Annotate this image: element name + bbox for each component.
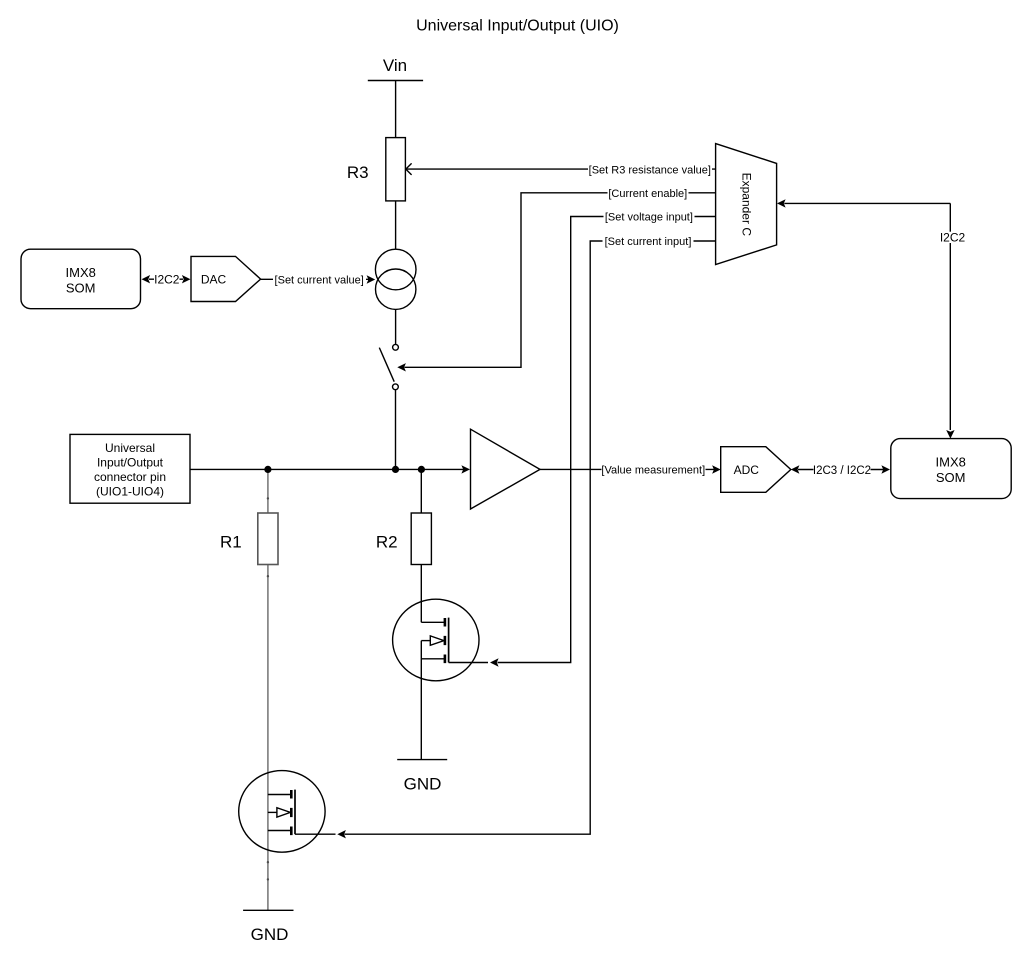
svg-text:SOM: SOM	[936, 470, 966, 485]
power rail Vin	[368, 80, 423, 82]
transistor Q1 drain lead	[268, 794, 291, 796]
svg-text:R1: R1	[220, 533, 242, 552]
svg-text:[Set current value]: [Set current value]	[275, 274, 364, 286]
net [Current enable] Expander to switch	[405, 193, 716, 367]
svg-text:[Set voltage input]: [Set voltage input]	[605, 212, 693, 224]
resistor R3 (adjustable)	[386, 138, 406, 201]
svg-text:[Set current input]: [Set current input]	[605, 236, 692, 248]
net [Set R3 resistance value] Expander to R3 wiper	[406, 168, 715, 170]
net [Set current value] DAC to current source	[261, 278, 369, 280]
transistor Q2 gate lead	[449, 662, 488, 664]
svg-text:IMX8: IMX8	[936, 455, 966, 470]
net [Value measurement] buffer to ADC	[540, 468, 714, 470]
svg-text:R2: R2	[376, 533, 398, 552]
junction node B (switch branch)	[392, 466, 399, 473]
transistor Q1 body connection with arrow	[268, 811, 277, 813]
wire switch to main node	[395, 390, 397, 470]
svg-text:(UIO1-UIO4): (UIO1-UIO4)	[96, 484, 164, 498]
wire node A to R1 to Q1 to GND (gray branch)	[267, 469, 269, 910]
ground GND (lower)	[243, 909, 293, 911]
transistor Q2 drain lead	[421, 621, 444, 623]
transistor Q1 channel contact bars	[290, 790, 293, 835]
wire node C to R2	[420, 469, 422, 513]
wire current source to switch S1	[395, 309, 397, 344]
current source CS1	[375, 249, 416, 290]
block U3 IMX8 SOM (right)	[891, 439, 1011, 499]
bus I2C3 / I2C2 between ADC and IMX8 SOM (double arrow)	[798, 469, 884, 471]
bus I2C2 between Expander C and IMX8 SOM (right)	[784, 203, 950, 430]
DAC converter block	[191, 256, 261, 301]
transistor Q1 gate lead	[295, 833, 336, 835]
svg-text:[Current enable]: [Current enable]	[608, 188, 687, 200]
svg-text:ADC: ADC	[734, 463, 760, 477]
buffer amplifier A1	[471, 429, 541, 509]
transistor Q2 channel contact bars	[444, 618, 447, 663]
svg-text:[Set R3 resistance value]: [Set R3 resistance value]	[589, 164, 711, 176]
wire R3 to current source	[395, 201, 397, 249]
transistor Q2 gate bar	[448, 618, 450, 663]
bus I2C2 between IMX8 SOM and DAC (double arrow)	[149, 278, 183, 280]
transistor Q1 bottom contact lead	[268, 830, 291, 832]
svg-text:I2C3 / I2C2: I2C3 / I2C2	[813, 465, 871, 477]
svg-text:connector pin: connector pin	[94, 470, 166, 484]
wire Vin to R3	[395, 81, 397, 138]
svg-text:Vin: Vin	[383, 56, 407, 75]
transistor Q1 (lower MOSFET, body circle)	[239, 771, 325, 853]
svg-text:Expander C: Expander C	[739, 173, 753, 237]
switch S1	[393, 344, 399, 350]
svg-text:GND: GND	[404, 775, 442, 794]
ADC converter block	[721, 447, 791, 493]
wire main node: connector pin to buffer input	[190, 468, 464, 470]
net [Set current input] Expander to Q1 gate	[345, 241, 716, 834]
svg-text:Input/Output: Input/Output	[97, 456, 164, 470]
svg-text:SOM: SOM	[66, 280, 96, 295]
junction node A (R1 tap)	[264, 466, 271, 473]
transistor Q2 body connection with arrow	[421, 640, 430, 642]
ground GND (upper)	[397, 759, 447, 761]
block U1 IMX8 SOM (left)	[21, 249, 141, 309]
svg-text:I2C2: I2C2	[154, 272, 180, 286]
svg-text:[Value measurement]: [Value measurement]	[601, 464, 705, 476]
wire R2 to Q2 drain	[420, 565, 422, 623]
svg-text:GND: GND	[251, 925, 289, 944]
svg-text:I2C2: I2C2	[940, 230, 966, 244]
net [Set voltage input] Expander to Q2 gate	[498, 217, 716, 663]
block universal input/output connector pin (UIO1-UIO4)	[70, 434, 190, 503]
resistor R1	[258, 513, 278, 565]
transistor Q2 (upper MOSFET, body circle)	[393, 599, 479, 681]
svg-text:Universal Input/Output (UIO): Universal Input/Output (UIO)	[416, 18, 619, 35]
transistor Q2 source lead	[421, 641, 444, 760]
svg-text:IMX8: IMX8	[66, 265, 96, 280]
svg-text:Universal: Universal	[105, 441, 155, 455]
resistor R2	[411, 513, 431, 565]
svg-text:DAC: DAC	[201, 272, 227, 286]
junction nub (gray wire joint)	[267, 497, 269, 499]
transistor Q1 gate bar	[294, 790, 296, 835]
expander U2 Expander C (trapezoid)	[716, 144, 777, 265]
junction node C (R2 tap)	[418, 466, 425, 473]
svg-text:R3: R3	[347, 163, 369, 182]
